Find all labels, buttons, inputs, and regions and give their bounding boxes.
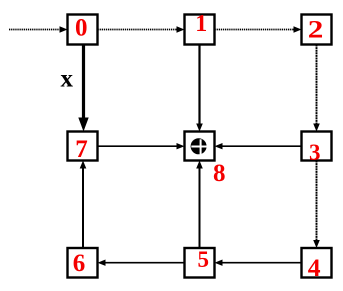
wire dotted input line into node 0	[9, 26, 68, 32]
wire solid 5 to 8	[196, 161, 203, 248]
svg-text:5: 5	[197, 247, 209, 272]
wire dotted 0 to 1	[98, 26, 185, 32]
wire solid 5 to 6	[98, 260, 185, 266]
wire solid 6 to 7	[80, 161, 87, 248]
svg-text:0: 0	[75, 15, 88, 42]
node 5 box	[185, 248, 215, 278]
node 4 box	[302, 248, 332, 278]
svg-text:7: 7	[75, 136, 88, 163]
node 8 crosshair symbol	[191, 138, 207, 155]
node 7 box	[68, 132, 98, 161]
wire solid 3 to 8	[215, 143, 302, 149]
wire solid 4 to 5	[215, 260, 302, 266]
svg-text:3: 3	[309, 140, 321, 165]
wire solid 1 to 8	[196, 45, 203, 132]
wire solid 7 to 8	[98, 143, 185, 149]
node 8 box	[185, 132, 215, 161]
svg-text:x: x	[61, 66, 74, 93]
wire dotted 2 to 3	[313, 45, 320, 132]
svg-text:6: 6	[73, 250, 86, 277]
svg-text:8: 8	[213, 160, 226, 187]
svg-text:2: 2	[308, 17, 324, 44]
node 6 box	[68, 248, 98, 278]
node 3 box	[302, 132, 332, 161]
node 0 box	[68, 15, 98, 45]
svg-text:4: 4	[308, 255, 321, 282]
svg-text:1: 1	[195, 11, 207, 37]
node 2 box	[302, 15, 332, 45]
node 1 box	[185, 15, 215, 45]
wire dotted 3 to 4	[313, 161, 320, 249]
wire thick arrow 0 to 7	[78, 45, 88, 132]
wire dotted 1 to 2	[215, 26, 302, 32]
